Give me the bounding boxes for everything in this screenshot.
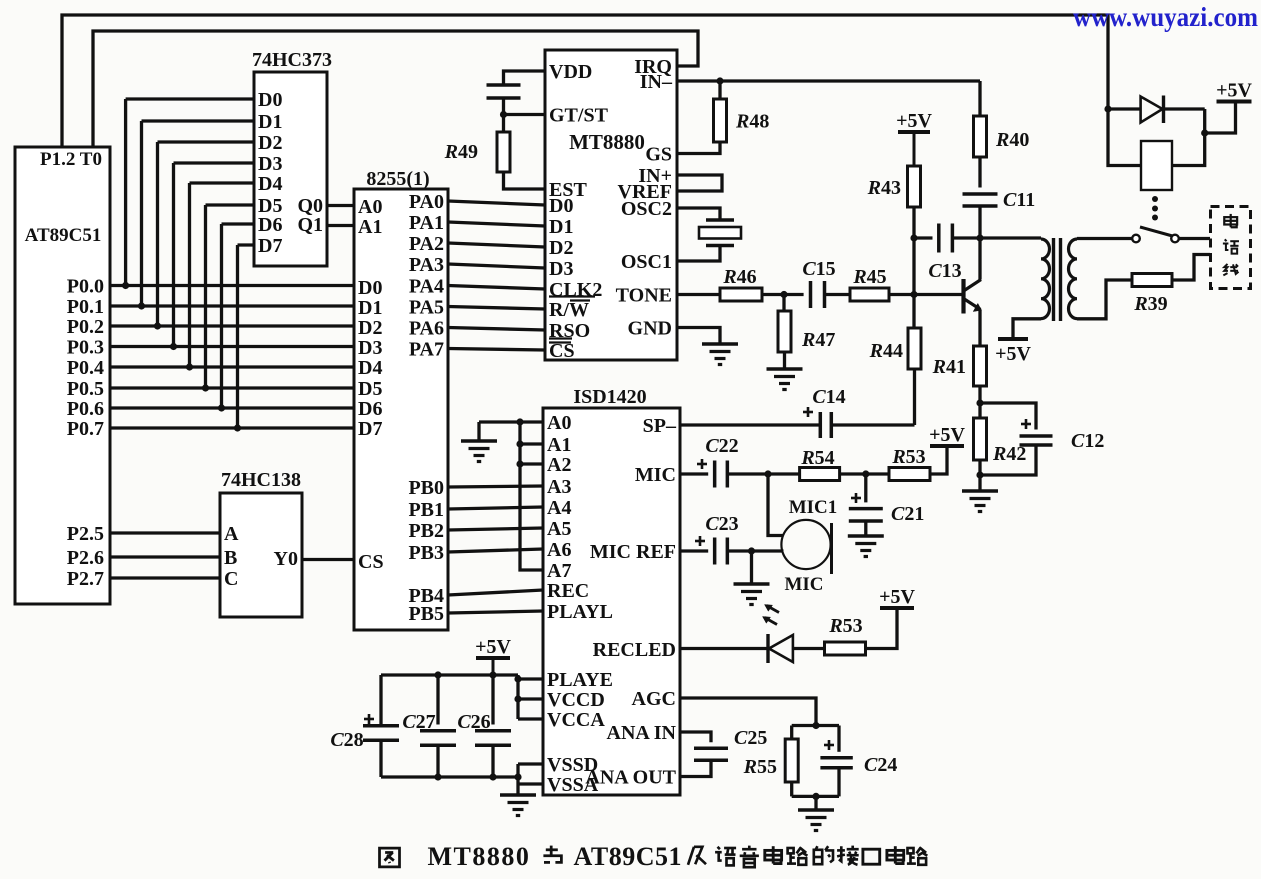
capacitor C24 (electrolytic) xyxy=(820,726,897,797)
svg-text:R43: R43 xyxy=(867,177,901,199)
wire GT/ST node xyxy=(500,111,545,118)
svg-text:74HC138: 74HC138 xyxy=(221,469,301,491)
svg-text:P0.1: P0.1 xyxy=(67,296,104,318)
IC U4 74HC138 xyxy=(220,469,302,617)
svg-text:P2.5: P2.5 xyxy=(67,523,104,545)
svg-text:ANA IN: ANA IN xyxy=(607,722,677,744)
svg-text:+5V: +5V xyxy=(929,424,965,446)
svg-text:VDD: VDD xyxy=(549,61,592,83)
wire R55 C24 bottom rail xyxy=(792,793,839,800)
svg-text:VCCA: VCCA xyxy=(547,709,605,731)
relay K1 coil xyxy=(1108,109,1205,190)
crystal Y1 between OSC2 and OSC1 xyxy=(677,208,741,261)
svg-text:C12: C12 xyxy=(1071,430,1104,452)
svg-text:P0.4: P0.4 xyxy=(67,357,104,379)
svg-text:D5: D5 xyxy=(358,378,382,400)
svg-text:C: C xyxy=(224,568,238,590)
power +5V (above R43) xyxy=(898,130,930,134)
svg-text:ISD1420: ISD1420 xyxy=(573,386,646,408)
wire 74HC138 Y0 to 8255 CS xyxy=(302,558,354,561)
svg-text:A1: A1 xyxy=(547,434,571,456)
diode D1 (relay clamp) xyxy=(1104,96,1204,124)
IC U5 MT8880 xyxy=(545,50,677,362)
svg-text:C21: C21 xyxy=(891,503,924,525)
wire C23 to MIC1 xyxy=(727,547,783,554)
svg-text:RECLED: RECLED xyxy=(593,639,676,661)
capacitor C21 (electrolytic) xyxy=(849,474,925,536)
wire 8255 PA6 to MT8880 RSO xyxy=(448,328,545,331)
wire 74HC373 Q0 to 8255 A0 xyxy=(327,204,354,207)
svg-text:PLAYL: PLAYL xyxy=(547,601,613,623)
wire SP- to C14 xyxy=(680,423,819,426)
ground (ISD address pins) xyxy=(461,439,497,443)
svg-text:P2.7: P2.7 xyxy=(67,568,104,590)
wire 8255 PA5 to MT8880 R/W xyxy=(448,307,545,310)
svg-text:PA4: PA4 xyxy=(409,276,444,298)
resistor R49 xyxy=(444,115,510,173)
wire P2.6 to 74HC138 B xyxy=(110,555,220,558)
wire P0.2 to 8255 D2 and 74HC373 D2 xyxy=(110,142,354,330)
wire P2.5 to 74HC138 A xyxy=(110,531,220,534)
wire secondary bottom to R39 xyxy=(1077,280,1132,319)
dotted link relay to switch xyxy=(1152,196,1158,202)
svg-text:PA6: PA6 xyxy=(409,318,444,340)
resistor R53 (LED series) xyxy=(825,615,866,655)
wire C13 to collector node xyxy=(952,234,1041,241)
resistor R53 (MIC bias) xyxy=(889,446,930,481)
wire R45 to base node xyxy=(889,291,918,298)
wire LED to R53 xyxy=(793,647,824,650)
wire 8255 PA3 to MT8880 D3 xyxy=(448,264,545,268)
power +5V (LED supply) xyxy=(880,606,914,610)
wire 74HC373 Q1 to 8255 A1 xyxy=(327,224,354,227)
svg-text:R55: R55 xyxy=(743,756,777,778)
svg-text:PB2: PB2 xyxy=(408,520,444,542)
resistor R48 xyxy=(714,81,770,142)
wire P1.2 from AT89C51 top to relay/diode circuit xyxy=(62,15,1108,147)
svg-text:P2.6: P2.6 xyxy=(67,547,104,569)
wire C14 to R44 xyxy=(832,423,914,426)
svg-text:R41: R41 xyxy=(932,356,966,378)
svg-text:D0: D0 xyxy=(258,89,282,111)
capacitor C13 xyxy=(914,224,962,283)
svg-text:D6: D6 xyxy=(258,214,282,236)
svg-text:P0.2: P0.2 xyxy=(67,316,104,338)
wire R42 to ground node xyxy=(976,460,983,491)
wire 8255 PA7 to MT8880 CS xyxy=(448,349,545,351)
svg-text:AT89C51: AT89C51 xyxy=(25,225,102,246)
svg-text:OSC2: OSC2 xyxy=(621,198,672,220)
svg-text:www.wuyazi.com: www.wuyazi.com xyxy=(1073,2,1258,32)
wire 8255 PB1 to ISD1420 A4 xyxy=(448,507,543,509)
svg-text:P0.7: P0.7 xyxy=(67,418,104,440)
capacitor C26 xyxy=(457,675,511,777)
svg-text:D3: D3 xyxy=(258,153,282,175)
wire +5V rail to PLAYE VCCD VCCA xyxy=(381,671,543,719)
svg-text:D0: D0 xyxy=(358,277,382,299)
LED D2 (record indicator) xyxy=(763,605,793,664)
wire VDD to bypass capacitor xyxy=(504,71,546,85)
svg-text:+5V: +5V xyxy=(995,343,1031,365)
svg-text:C27: C27 xyxy=(402,711,435,733)
svg-text:R45: R45 xyxy=(852,266,886,288)
svg-text:R40: R40 xyxy=(995,129,1029,151)
wire TONE to R46 xyxy=(677,293,720,296)
svg-text:D2: D2 xyxy=(549,237,573,259)
wire R54 to R53 node xyxy=(840,470,889,477)
capacitor C15 xyxy=(802,258,835,308)
wire C15 to R45 xyxy=(825,293,851,296)
resistor R44 xyxy=(869,328,921,369)
svg-text:R39: R39 xyxy=(1133,293,1167,315)
ground (below C21) xyxy=(848,534,884,538)
svg-text:PB0: PB0 xyxy=(408,477,444,499)
svg-text:D4: D4 xyxy=(258,173,282,195)
capacitor C23 (electrolytic) xyxy=(695,513,739,565)
svg-text:PA2: PA2 xyxy=(409,233,444,255)
wire IN+ to VREF loop xyxy=(677,175,722,191)
ground (below R47) xyxy=(767,352,803,390)
svg-text:MIC REF: MIC REF xyxy=(590,541,676,563)
svg-text:D2: D2 xyxy=(258,132,282,154)
resistor R55 xyxy=(743,726,799,797)
IC U6 ISD1420 xyxy=(543,386,680,796)
svg-text:PA1: PA1 xyxy=(409,212,444,234)
svg-text:+5V: +5V xyxy=(879,586,915,608)
wire R55 C24 top rail xyxy=(792,722,839,729)
wire IN- node xyxy=(677,77,980,84)
svg-text:GS: GS xyxy=(645,144,672,166)
wire 8255 PA0 to MT8880 D0 xyxy=(448,201,545,205)
svg-text:D7: D7 xyxy=(258,235,282,257)
svg-text:P0.6: P0.6 xyxy=(67,398,104,420)
capacitor C11 xyxy=(963,157,1036,238)
svg-text:A0: A0 xyxy=(547,412,571,434)
wire 8255 PA4 to MT8880 CLK2 xyxy=(448,286,545,290)
IC U1 AT89C51 xyxy=(15,147,110,604)
resistor R42 xyxy=(974,418,1027,465)
wire R49 to EST xyxy=(504,172,546,189)
svg-text:A3: A3 xyxy=(547,476,571,498)
svg-text:PA7: PA7 xyxy=(409,339,444,361)
svg-text:CLK2: CLK2 xyxy=(549,279,602,301)
svg-text:TONE: TONE xyxy=(616,285,672,307)
svg-text:AGC: AGC xyxy=(632,688,676,710)
wire 8255 PB2 to ISD1420 A5 xyxy=(448,528,543,530)
transistor Q1 (NPN) xyxy=(914,241,982,346)
svg-text:A5: A5 xyxy=(547,518,571,540)
svg-text:C22: C22 xyxy=(705,435,738,457)
svg-text:PB3: PB3 xyxy=(408,542,444,564)
power +5V (relay supply) xyxy=(1201,80,1252,137)
wire P0.3 to 8255 D3 and 74HC373 D3 xyxy=(110,163,354,350)
svg-text:A7: A7 xyxy=(547,560,571,582)
svg-text:B: B xyxy=(224,547,237,569)
svg-text:D2: D2 xyxy=(358,317,382,339)
svg-text:A0: A0 xyxy=(358,196,382,218)
wire T0 from AT89C51 top to MT8880 IRQ xyxy=(93,31,698,147)
wire MIC REF row xyxy=(680,549,708,552)
svg-text:MIC: MIC xyxy=(784,574,823,595)
capacitor C27 xyxy=(402,675,456,777)
svg-text:+5V: +5V xyxy=(896,110,932,132)
svg-text:R48: R48 xyxy=(735,111,769,133)
svg-text:IN–: IN– xyxy=(640,71,673,93)
resistor R46 xyxy=(720,266,762,301)
caption title xyxy=(380,842,928,871)
svg-text:A: A xyxy=(224,523,239,545)
svg-text:R53: R53 xyxy=(828,615,862,637)
svg-text:ANA OUT: ANA OUT xyxy=(585,767,676,789)
ground (MT8880 GND) xyxy=(702,342,738,346)
capacitor C12 xyxy=(980,403,1104,475)
hook switch S1 xyxy=(1132,227,1179,242)
svg-text:GT/ST: GT/ST xyxy=(549,105,609,127)
IC U2 74HC373 xyxy=(252,49,332,266)
svg-text:MIC: MIC xyxy=(635,464,676,486)
svg-text:D1: D1 xyxy=(258,111,282,133)
svg-text:PA5: PA5 xyxy=(409,297,444,319)
wire RECLED to LED xyxy=(680,647,768,650)
wire R44 to C14 xyxy=(913,369,916,425)
svg-text:R46: R46 xyxy=(722,266,756,288)
svg-text:CS: CS xyxy=(358,551,384,573)
svg-text:P1.2 T0: P1.2 T0 xyxy=(40,149,102,170)
ground (below R42) xyxy=(962,489,998,493)
wire R53 to +5V xyxy=(866,608,897,649)
svg-text:R/W: R/W xyxy=(549,299,589,321)
svg-text:VCCD: VCCD xyxy=(547,689,605,711)
wire R48 to GS xyxy=(677,142,720,154)
wire 8255 PB3 to ISD1420 A6 xyxy=(448,549,543,552)
svg-text:D0: D0 xyxy=(549,195,573,217)
svg-text:R49: R49 xyxy=(444,141,478,163)
wire 8255 PA2 to MT8880 D2 xyxy=(448,243,545,247)
svg-text:A6: A6 xyxy=(547,539,571,561)
svg-text:C24: C24 xyxy=(864,754,897,776)
svg-text:GND: GND xyxy=(628,318,672,340)
resistor R40 xyxy=(974,81,1030,157)
resistor R45 xyxy=(850,266,889,301)
wire R43 to C13 node and base node xyxy=(910,207,917,328)
transformer T1 xyxy=(1041,238,1077,321)
svg-text:D7: D7 xyxy=(358,418,382,440)
svg-text:C14: C14 xyxy=(812,386,845,408)
capacitor C-VDD (bypass) xyxy=(487,85,521,115)
wire P0.5 to 8255 D5 and 74HC373 D5 xyxy=(110,205,354,392)
svg-text:P0.5: P0.5 xyxy=(67,378,104,400)
svg-text:D1: D1 xyxy=(358,297,382,319)
svg-text:C23: C23 xyxy=(705,513,738,535)
svg-text:MIC1: MIC1 xyxy=(789,497,838,518)
svg-text:SP–: SP– xyxy=(643,415,677,437)
svg-text:A4: A4 xyxy=(547,497,571,519)
svg-text:+5V: +5V xyxy=(1216,80,1252,102)
svg-text:Y0: Y0 xyxy=(274,548,298,570)
svg-text:PB5: PB5 xyxy=(408,603,444,625)
capacitor C22 (electrolytic) xyxy=(697,435,739,488)
svg-text:D3: D3 xyxy=(358,337,382,359)
wire P0.0 to 8255 D0 and 74HC373 D0 xyxy=(110,99,354,289)
wire P0.4 to 8255 D4 and 74HC373 D4 xyxy=(110,183,354,371)
svg-text:A1: A1 xyxy=(358,216,382,238)
ground (ISD VSS) xyxy=(500,793,536,797)
svg-text:C15: C15 xyxy=(802,258,835,280)
svg-text:D1: D1 xyxy=(549,216,573,238)
svg-text:P0.0: P0.0 xyxy=(67,276,104,298)
svg-text:MT8880: MT8880 xyxy=(428,842,531,871)
svg-text:P0.3: P0.3 xyxy=(67,337,104,359)
svg-text:PLAYE: PLAYE xyxy=(547,669,613,691)
svg-text:C25: C25 xyxy=(734,727,767,749)
capacitor C28 (electrolytic) xyxy=(330,675,399,777)
wire 8255 PB4 to ISD1420 REC xyxy=(448,590,543,595)
svg-text:D4: D4 xyxy=(358,357,382,379)
resistor R41 xyxy=(932,346,987,386)
resistor R47 xyxy=(778,295,835,353)
wire AGC to R55/C24 node xyxy=(680,698,816,726)
phone line terminal box (dashed) xyxy=(1211,207,1251,289)
wire primary bottom to +5V xyxy=(1013,319,1041,339)
wire R46 to node A xyxy=(762,291,804,298)
wire MIC row xyxy=(680,472,708,475)
svg-text:CS: CS xyxy=(549,340,575,362)
wire R39 to phone line box xyxy=(1172,255,1210,281)
svg-text:PB1: PB1 xyxy=(408,499,444,521)
svg-text:74HC373: 74HC373 xyxy=(252,49,332,71)
wire P0.1 to 8255 D1 and 74HC373 D1 xyxy=(110,121,354,310)
svg-text:Q1: Q1 xyxy=(297,214,323,236)
svg-text:R53: R53 xyxy=(891,446,925,468)
svg-text:R54: R54 xyxy=(800,447,834,469)
wire ground rail VSSD VSSA xyxy=(381,764,543,795)
resistor R43 xyxy=(867,166,921,207)
ground (below R55/C24) xyxy=(798,796,834,830)
svg-text:PA3: PA3 xyxy=(409,254,444,276)
wire 8255 PA1 to MT8880 D1 xyxy=(448,222,545,226)
wire R41 to R42 node xyxy=(976,386,983,418)
svg-text:+5V: +5V xyxy=(475,636,511,658)
wire C22 to R54 node xyxy=(727,470,799,477)
svg-text:D6: D6 xyxy=(358,398,382,420)
svg-text:REC: REC xyxy=(547,580,589,602)
svg-text:8255(1): 8255(1) xyxy=(366,168,429,190)
svg-text:C13: C13 xyxy=(928,260,961,282)
svg-text:D3: D3 xyxy=(549,258,573,280)
svg-text:OSC1: OSC1 xyxy=(621,251,672,273)
wire P2.7 to 74HC138 C xyxy=(110,576,220,579)
IC U3 8255(1) xyxy=(354,168,448,630)
power +5V (transformer primary) xyxy=(998,337,1028,341)
wire GND pin to ground xyxy=(677,328,720,345)
capacitor C14 xyxy=(803,386,846,438)
wire P0.7 to 8255 D7 and 74HC373 D7 xyxy=(110,245,354,432)
svg-text:A2: A2 xyxy=(547,454,571,476)
svg-text:C11: C11 xyxy=(1003,189,1035,211)
wire ground bus for A0 A1 A2 A7 xyxy=(479,418,543,570)
resistor R54 xyxy=(800,447,840,481)
wire 8255 PB5 to ISD1420 PLAYL xyxy=(448,611,543,613)
wire secondary top to hook switch xyxy=(1077,237,1133,240)
microphone MIC1 xyxy=(768,474,837,595)
wire R53 to +5V xyxy=(930,446,947,474)
wire P0.6 to 8255 D6 and 74HC373 D6 xyxy=(110,224,354,412)
wire 8255 PB0 to ISD1420 A3 xyxy=(448,486,543,487)
capacitor C25 xyxy=(680,727,767,777)
svg-text:R47: R47 xyxy=(801,329,835,351)
resistor R39 xyxy=(1132,274,1172,316)
svg-text:MT8880: MT8880 xyxy=(569,130,645,154)
power +5V (MIC bias) xyxy=(930,444,964,448)
power +5V (ISD supply rail) xyxy=(476,656,510,660)
ground (MIC REF) xyxy=(734,551,770,605)
svg-text:C28: C28 xyxy=(330,729,363,751)
wire switch to phone line box xyxy=(1179,237,1210,240)
svg-text:AT89C51: AT89C51 xyxy=(574,842,682,871)
svg-text:C26: C26 xyxy=(457,711,490,733)
svg-text:R44: R44 xyxy=(869,340,903,362)
svg-text:PA0: PA0 xyxy=(409,191,444,213)
